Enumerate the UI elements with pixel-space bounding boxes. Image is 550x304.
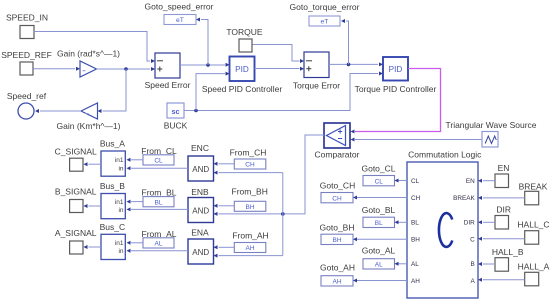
svg-text:sc: sc — [172, 107, 180, 116]
wire Torque PID to Comparator (magenta) — [351, 69, 441, 134]
svg-text:BREAK: BREAK — [453, 195, 475, 202]
wire BREAK to Commutation Logic — [478, 196, 525, 200]
svg-text:DIR: DIR — [464, 220, 475, 227]
svg-text:A_SIGNAL: A_SIGNAL — [55, 228, 97, 238]
port EN — [495, 163, 509, 188]
svg-text:in1: in1 — [115, 199, 124, 206]
wire AND gate to Bus_A in — [127, 166, 189, 170]
svg-text:BH: BH — [411, 237, 420, 244]
goto Goto_CH — [320, 181, 355, 203]
svg-text:PID: PID — [389, 65, 403, 74]
wire Bus_B to B_SIGNAL — [84, 204, 102, 208]
port A_SIGNAL — [55, 228, 97, 254]
svg-text:ENC: ENC — [191, 143, 209, 153]
goto Goto_torque_error — [290, 2, 360, 26]
wire junction up to Goto_speed_error — [196, 18, 208, 66]
goto Goto_speed_error — [145, 2, 214, 25]
svg-text:SPEED_IN: SPEED_IN — [6, 13, 48, 23]
port SPEED_IN — [6, 13, 48, 39]
wire Comparator to AND gate lower inputs with junction — [214, 135, 325, 258]
svg-text:BH: BH — [332, 237, 341, 244]
from From_AL — [142, 229, 177, 248]
svg-text:BREAK: BREAK — [519, 181, 548, 191]
goto Goto_AH — [320, 263, 355, 286]
svg-text:From_CH: From_CH — [230, 147, 267, 157]
wire Commutation Logic to Goto_CL — [395, 179, 408, 183]
wire From_CL to Bus_A in1 — [127, 158, 144, 162]
svg-text:From_BL: From_BL — [142, 188, 177, 198]
svg-text:ENB: ENB — [191, 187, 209, 197]
port BREAK — [519, 181, 548, 205]
svg-text:Triangular Wave Source: Triangular Wave Source — [445, 120, 536, 130]
svg-text:Goto_speed_error: Goto_speed_error — [145, 2, 214, 12]
svg-text:Speed Error: Speed Error — [145, 80, 191, 90]
svg-text:in1: in1 — [115, 240, 124, 247]
svg-text:HALL_A: HALL_A — [518, 261, 550, 271]
svg-text:CL: CL — [411, 178, 420, 185]
wire junction down to Gain (Km*h^-1) — [98, 69, 127, 113]
svg-text:Goto_AL: Goto_AL — [362, 246, 396, 256]
svg-text:Goto_BL: Goto_BL — [362, 205, 396, 215]
port HALL_B — [492, 247, 524, 271]
svg-text:AL: AL — [411, 261, 419, 268]
svg-text:AND: AND — [192, 248, 209, 257]
subsystem Commutation Logic — [407, 150, 482, 298]
svg-text:eT: eT — [176, 17, 184, 24]
goto Goto_BH — [320, 222, 355, 244]
svg-text:Goto_CH: Goto_CH — [320, 181, 355, 191]
svg-text:EN: EN — [466, 178, 475, 185]
svg-text:ENA: ENA — [191, 227, 209, 237]
svg-text:From_BH: From_BH — [232, 187, 268, 197]
wire HALL_C to Commutation Logic — [478, 237, 525, 241]
and-gate ENA — [188, 227, 214, 264]
svg-text:in: in — [118, 248, 123, 255]
svg-text:Bus_B: Bus_B — [100, 181, 125, 191]
wire Commutation Logic to Goto_BL — [395, 220, 408, 224]
svg-text:CL: CL — [154, 158, 163, 165]
scope Speed_ref — [7, 91, 47, 119]
wire From_AH to AND gate — [214, 245, 235, 249]
svg-text:BUCK: BUCK — [164, 120, 188, 130]
svg-text:Torque Error: Torque Error — [293, 81, 340, 91]
sum Speed Error — [145, 53, 191, 90]
port B_SIGNAL — [55, 187, 97, 213]
svg-text:EN: EN — [498, 163, 510, 173]
bus Bus_C — [100, 222, 126, 260]
svg-text:CH: CH — [332, 195, 342, 202]
svg-text:AH: AH — [332, 279, 341, 286]
svg-text:Bus_A: Bus_A — [100, 139, 125, 149]
port C_SIGNAL — [55, 147, 97, 172]
svg-text:Goto_BH: Goto_BH — [320, 222, 355, 232]
wire AND gate to Bus_B in — [127, 207, 189, 211]
wire From_AL to Bus_C in1 — [127, 241, 144, 245]
wire AND gate to Bus_C in — [127, 249, 189, 253]
wire BUCK to PID controllers lower inputs — [184, 72, 383, 113]
svg-text:AND: AND — [192, 206, 209, 215]
svg-text:DIR: DIR — [496, 205, 511, 215]
port SPEED_REF — [1, 50, 52, 75]
goto Goto_AL — [362, 246, 396, 269]
wire Bus_C to A_SIGNAL — [84, 245, 102, 249]
svg-text:BL: BL — [375, 220, 383, 227]
port TORQUE — [226, 27, 263, 52]
wire Commutation Logic to Goto_AL — [395, 262, 408, 266]
wire SPEED_IN to Speed Error minus input — [34, 32, 155, 64]
svg-text:SPEED_REF: SPEED_REF — [1, 50, 52, 60]
goto Goto_CL — [361, 163, 395, 186]
svg-text:AL: AL — [155, 241, 163, 248]
svg-text:From_AH: From_AH — [232, 230, 268, 240]
wire Commutation Logic to Goto_CH — [353, 196, 407, 200]
and-gate ENB — [188, 187, 214, 223]
wire TORQUE to Torque Error minus input — [253, 45, 305, 64]
source BUCK sc block — [164, 103, 188, 130]
svg-text:BH: BH — [245, 204, 254, 211]
svg-text:in: in — [118, 166, 123, 173]
svg-text:Goto_CL: Goto_CL — [361, 163, 395, 173]
svg-text:in: in — [118, 207, 123, 214]
from From_BH — [232, 187, 268, 212]
svg-text:Torque PID Controller: Torque PID Controller — [355, 84, 437, 94]
svg-text:Speed_ref: Speed_ref — [7, 91, 47, 101]
port HALL_C — [517, 220, 549, 245]
wire Bus_A to C_SIGNAL — [84, 162, 102, 166]
wire Triangular Wave Source to Comparator — [351, 138, 483, 142]
bus Bus_A — [100, 139, 125, 177]
svg-text:Bus_C: Bus_C — [100, 222, 126, 232]
wire From_CH to AND gate — [214, 162, 235, 166]
svg-text:B_SIGNAL: B_SIGNAL — [55, 187, 97, 197]
svg-text:C: C — [470, 237, 475, 244]
svg-text:AH: AH — [245, 245, 254, 252]
source Triangular Wave Source — [445, 120, 536, 147]
wire Speed PID to Torque Error plus input — [255, 67, 305, 71]
svg-text:Comparator: Comparator — [315, 150, 360, 160]
wire Torque Error to Torque PID with junction — [329, 62, 383, 66]
wire Gain to Speed Error plus input with junction — [97, 67, 156, 71]
from From_CH — [230, 147, 267, 169]
svg-text:AND: AND — [192, 165, 209, 174]
svg-text:PID: PID — [235, 65, 249, 74]
svg-text:C_SIGNAL: C_SIGNAL — [55, 147, 97, 157]
svg-text:CL: CL — [375, 178, 384, 185]
svg-text:eT: eT — [321, 19, 329, 26]
wire SPEED_REF to Gain — [33, 67, 80, 71]
wire HALL_A to Commutation Logic — [478, 278, 525, 282]
port DIR — [495, 205, 511, 230]
svg-text:in1: in1 — [115, 157, 124, 164]
svg-text:Gain (Km*h^—1): Gain (Km*h^—1) — [57, 121, 121, 131]
svg-text:BL: BL — [155, 199, 163, 206]
gain Gain (Km*h^-1) — [57, 103, 121, 131]
wire From_BH to AND gate — [214, 204, 235, 208]
svg-text:TORQUE: TORQUE — [226, 27, 263, 37]
wire DIR to Commutation Logic — [478, 220, 495, 224]
pid Speed PID Controller — [202, 57, 282, 95]
wire EN to Commutation Logic — [478, 179, 495, 183]
wire Commutation Logic to Goto_BH — [353, 237, 407, 241]
svg-text:B: B — [471, 261, 475, 268]
svg-text:Gain (rad*s^—1): Gain (rad*s^—1) — [57, 49, 120, 59]
svg-text:Commutation Logic: Commutation Logic — [408, 150, 482, 160]
wire Gain to Speed_ref scope — [35, 109, 81, 113]
pid Torque PID Controller — [355, 57, 437, 94]
goto Goto_BL — [362, 205, 396, 227]
svg-text:Speed PID Controller: Speed PID Controller — [202, 84, 282, 94]
svg-text:AL: AL — [375, 262, 383, 269]
svg-text:AH: AH — [411, 278, 420, 285]
and-gate ENC — [188, 143, 214, 181]
wire From_BL to Bus_B in1 — [127, 200, 144, 204]
wire HALL_B to Commutation Logic — [478, 262, 495, 266]
svg-text:CH: CH — [245, 162, 255, 169]
svg-text:CH: CH — [411, 195, 421, 202]
svg-text:Goto_AH: Goto_AH — [320, 263, 355, 273]
wire junction up to Goto_torque_error — [341, 19, 349, 64]
wire Commutation Logic to Goto_AH — [353, 279, 407, 283]
wire Speed Error to Speed PID with junction — [180, 63, 230, 67]
from From_AH — [232, 230, 268, 252]
svg-text:HALL_C: HALL_C — [517, 220, 549, 230]
gain Gain (rad*s^-1) — [57, 49, 120, 78]
svg-text:Goto_torque_error: Goto_torque_error — [290, 2, 360, 12]
port HALL_A — [518, 261, 550, 286]
svg-text:HALL_B: HALL_B — [492, 247, 524, 257]
svg-text:A: A — [471, 278, 476, 285]
from From_BL — [142, 188, 177, 207]
from From_CL — [141, 146, 177, 165]
comparator block — [315, 123, 360, 160]
svg-text:BL: BL — [411, 220, 419, 227]
sum Torque Error — [293, 52, 340, 91]
bus Bus_B — [100, 181, 125, 219]
